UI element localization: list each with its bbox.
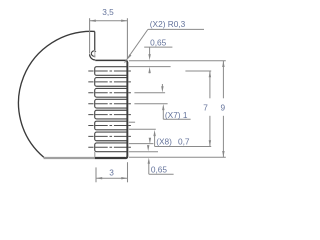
svg-text:3,5: 3,5: [102, 7, 114, 17]
svg-text:(X8): (X8): [156, 137, 172, 147]
svg-text:0,65: 0,65: [151, 164, 168, 174]
svg-text:9: 9: [220, 103, 225, 113]
svg-text:7: 7: [203, 103, 208, 113]
svg-text:0,65: 0,65: [150, 37, 167, 47]
svg-text:(X7) 1: (X7) 1: [165, 110, 188, 120]
svg-text:0,7: 0,7: [178, 137, 190, 147]
svg-text:3: 3: [109, 167, 114, 177]
svg-text:(X2) R0,3: (X2) R0,3: [150, 19, 186, 29]
